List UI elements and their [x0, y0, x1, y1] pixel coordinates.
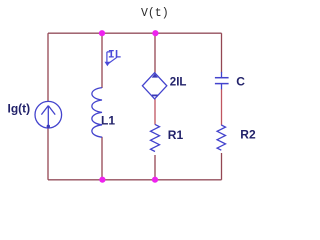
wire left branch upper segment — [47, 33, 49, 102]
wire inductor branch upper stub — [101, 33, 103, 88]
current source Ig(t) — [35, 101, 62, 128]
label V(t) node name — [141, 7, 169, 20]
label L1 — [101, 113, 115, 127]
wire bottom rail — [48, 179, 222, 181]
resistor R2 — [217, 125, 225, 150]
node junction dot bottom inductor — [99, 177, 105, 183]
node junction dot bottom middle — [152, 177, 158, 183]
label 2IL — [170, 76, 187, 88]
svg-text:IL: IL — [108, 50, 122, 62]
wire between C and R2 — [221, 89, 223, 125]
wire left branch lower segment — [47, 128, 49, 180]
node junction dot top inductor — [99, 30, 105, 36]
label IL — [108, 50, 122, 62]
svg-text:L1: L1 — [101, 113, 115, 127]
capacitor C — [215, 72, 229, 89]
svg-text:V(t): V(t) — [141, 7, 169, 20]
wire inductor branch lower stub — [101, 137, 103, 180]
dependent current source 2IL (diamond) — [142, 73, 166, 99]
svg-text:C: C — [236, 75, 245, 89]
wire top rail — [48, 32, 222, 34]
svg-text:Ig(t): Ig(t) — [8, 101, 31, 115]
resistor R1 — [151, 124, 160, 151]
svg-text:2IL: 2IL — [170, 76, 187, 88]
label C — [236, 75, 245, 89]
wire between 2IL source and R1 — [154, 99, 156, 125]
inductor L1 — [92, 88, 102, 138]
svg-text:R1: R1 — [168, 128, 184, 142]
svg-text:R2: R2 — [240, 128, 256, 142]
node junction dot top middle (V(t) node) — [152, 30, 158, 36]
wire middle branch upper segment — [154, 33, 156, 73]
wire right branch upper segment — [221, 33, 223, 72]
wire below R2 — [221, 153, 223, 180]
wire below R1 — [154, 155, 156, 180]
label R1 — [168, 128, 184, 142]
IL current arrow — [105, 52, 117, 66]
label Ig(t) — [8, 101, 31, 115]
label R2 — [240, 128, 256, 142]
